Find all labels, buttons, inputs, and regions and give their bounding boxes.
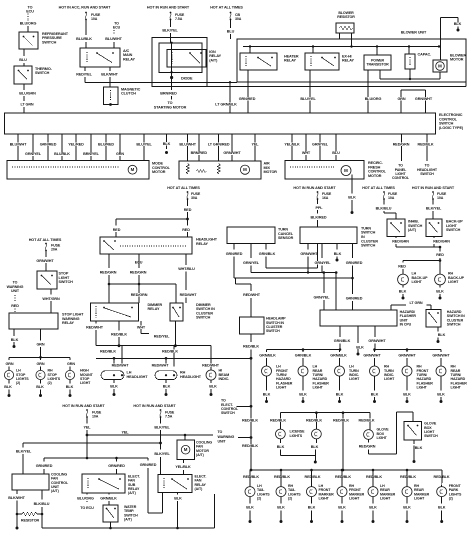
- RH back-up light: [435, 272, 465, 285]
- svg-text:YEL: YEL: [122, 431, 130, 435]
- svg-text:30A: 30A: [235, 17, 242, 21]
- fuse 20A: [45, 243, 61, 252]
- power transistor: [364, 55, 391, 70]
- svg-text:GRN/WHT: GRN/WHT: [398, 353, 416, 357]
- svg-text:RED/BLK: RED/BLK: [418, 143, 434, 147]
- svg-text:LIGHT: LIGHT: [448, 280, 459, 284]
- wire YEL (air mix): [252, 134, 260, 161]
- wire dimmer switch drop: [174, 321, 177, 347]
- wire BLU/RED (mode motor): [98, 134, 114, 161]
- svg-text:GRN: GRN: [36, 342, 44, 346]
- svg-text:LT GRN: LT GRN: [409, 301, 422, 305]
- svg-text:SWITCH: SWITCH: [266, 329, 280, 333]
- svg-text:LIGHT: LIGHT: [349, 377, 360, 381]
- svg-text:ECU: ECU: [113, 25, 121, 29]
- svg-text:RED/BLK: RED/BLK: [100, 350, 116, 354]
- wire GRN/WHT (turn switch): [300, 244, 318, 274]
- wire GRN (mode motor): [116, 134, 124, 161]
- svg-text:BLK: BLK: [338, 506, 346, 510]
- svg-text:LT GRN/BLK: LT GRN/BLK: [215, 102, 237, 106]
- svg-text:BLU/ORG: BLU/ORG: [365, 97, 382, 101]
- svg-text:BLK/BLU: BLK/BLU: [34, 502, 50, 506]
- svg-text:RED: RED: [436, 253, 444, 257]
- svg-text:LIGHT: LIGHT: [380, 497, 391, 501]
- ground LH headlight: [110, 380, 118, 396]
- ground RH headlight: [163, 380, 171, 396]
- svg-text:BLU/RED: BLU/RED: [98, 143, 114, 147]
- fuse 10A (backup): [383, 191, 398, 200]
- svg-text:BLK/YEL: BLK/YEL: [154, 425, 170, 429]
- wire WHT/GRN: [42, 289, 60, 313]
- ground LH back-up: [399, 285, 407, 300]
- wire RH turn rail GRN/WHT: [363, 348, 450, 366]
- wire GRN/YEL (mode motor): [25, 134, 42, 161]
- fuse 7.5A (elect fan): [160, 409, 175, 418]
- svg-text:BLK/RED: BLK/RED: [311, 216, 327, 220]
- wire RED/GRN (glove): [359, 412, 413, 454]
- wire GRN + GRN/WHT bracket: [397, 90, 432, 113]
- svg-text:RESISTOR: RESISTOR: [21, 518, 40, 522]
- ground rh front: [338, 497, 346, 523]
- svg-text:BLK/YEL: BLK/YEL: [154, 452, 170, 456]
- wire capac/motor common: [380, 69, 440, 80]
- svg-text:MOTOR: MOTOR: [450, 58, 464, 62]
- svg-text:GRN/WHT: GRN/WHT: [368, 339, 386, 343]
- wire GRN/WHT (hazard out): [368, 326, 386, 350]
- wire RED to headlight relay: [113, 199, 192, 237]
- hazard switch in cluster switch: [426, 310, 465, 328]
- ground stop light warning relay BLK: [11, 329, 19, 348]
- lh rear turn light: [298, 365, 329, 390]
- RH headlight: [155, 371, 202, 380]
- svg-text:SWITCH: SWITCH: [424, 434, 438, 438]
- svg-text:BLK: BLK: [438, 506, 446, 510]
- svg-text:GRN: GRN: [67, 362, 75, 366]
- svg-text:GRN/YEL: GRN/YEL: [315, 261, 332, 265]
- svg-text:RED/BLK: RED/BLK: [274, 475, 290, 479]
- ground front park: [438, 497, 446, 523]
- svg-text:GRN/YEL: GRN/YEL: [25, 152, 42, 156]
- svg-text:BLK: BLK: [436, 289, 444, 293]
- svg-text:GRN/RED: GRN/RED: [36, 464, 53, 468]
- svg-text:GRN/WHT: GRN/WHT: [363, 353, 381, 357]
- blower motor: [433, 54, 466, 73]
- elect fan sub relay (A/T): [82, 474, 140, 495]
- ground rh turn light: [371, 376, 379, 403]
- svg-text:WHT: WHT: [137, 325, 146, 329]
- ground rh tail: [277, 497, 285, 523]
- svg-text:BLK: BLK: [163, 385, 171, 389]
- svg-text:RELAY: RELAY: [62, 321, 74, 325]
- wire GRN/RED drop: [239, 70, 256, 113]
- wire RED/GRN (inhib): [392, 237, 440, 248]
- svg-text:GRN/RED: GRN/RED: [239, 97, 256, 101]
- wire RED/BLK to headlight switch: [417, 134, 438, 176]
- svg-text:BLK: BLK: [163, 142, 171, 146]
- wire / diode to starting motor: [154, 42, 193, 113]
- svg-text:HOT IN RUN AND START: HOT IN RUN AND START: [293, 186, 336, 190]
- wire GRN/WHT (air mix): [223, 134, 241, 161]
- ground hazard switch BLK: [437, 327, 446, 343]
- fuse 10A (A/C): [85, 12, 101, 22]
- lh front marker lamp: [307, 473, 335, 501]
- svg-text:BLU/YEL: BLU/YEL: [300, 97, 316, 101]
- node HOT IN RUN AND START (ign): [147, 6, 190, 10]
- fuse 7.5A (ign): [170, 12, 185, 22]
- svg-text:BLK: BLK: [454, 22, 462, 26]
- svg-text:ECU: ECU: [26, 10, 34, 14]
- svg-text:MOTOR: MOTOR: [152, 170, 166, 174]
- svg-text:BLK: BLK: [369, 506, 377, 510]
- electronic control switch (logic type): [5, 113, 464, 134]
- svg-text:RED/WHT: RED/WHT: [180, 293, 198, 297]
- node TO WARNING UNIT (stop): [7, 281, 24, 313]
- svg-text:BLK/YEL: BLK/YEL: [162, 29, 178, 33]
- wire GRN/RED rail: [234, 278, 353, 284]
- ground turn switch BLK: [334, 244, 342, 262]
- svg-text:LIGHT: LIGHT: [451, 386, 462, 390]
- svg-text:BLK: BLK: [246, 506, 254, 510]
- svg-text:RED/BLK: RED/BLK: [359, 419, 375, 423]
- svg-text:WHT/GRN: WHT/GRN: [42, 297, 60, 301]
- svg-text:BLK: BLK: [36, 385, 44, 389]
- wire GRN/BLK loop: [259, 244, 318, 268]
- svg-text:INDIC.: INDIC.: [219, 377, 230, 381]
- svg-text:RELAY: RELAY: [196, 242, 208, 246]
- svg-text:M: M: [243, 167, 247, 172]
- svg-text:YEL/RED: YEL/RED: [68, 143, 84, 147]
- headlamp switch in cluster switch: [239, 317, 286, 334]
- wire BLK/WHT to magnetic clutch: [101, 67, 118, 87]
- svg-text:BLK: BLK: [415, 446, 423, 450]
- svg-text:RED/BLK: RED/BLK: [111, 333, 127, 337]
- node HOT AT ALL TIMES (backup): [362, 186, 395, 190]
- svg-text:(A/T): (A/T): [124, 518, 133, 522]
- svg-text:GRN/BLK: GRN/BLK: [334, 339, 351, 343]
- svg-text:LIGHTS: LIGHTS: [290, 434, 303, 438]
- wire BLK (recirc motor ground): [348, 175, 356, 215]
- ground license lights: [277, 439, 319, 464]
- wire BLU/BLK: [76, 20, 92, 49]
- ground RH stop: [36, 380, 44, 397]
- svg-text:BLK: BLK: [11, 338, 19, 342]
- wire BLK/YEL (elect fan feed): [154, 417, 170, 444]
- ground high mount stop: [66, 380, 74, 397]
- wire BLU/YEL drop: [300, 70, 316, 113]
- svg-text:RED/BLK: RED/BLK: [335, 475, 351, 479]
- wire BLK/YEL (ign relay feed): [162, 20, 178, 43]
- wire RED/WHT (high beam): [86, 321, 104, 346]
- wire GRN/WHT: [36, 251, 54, 272]
- wire BLU (blower feed): [227, 20, 235, 40]
- svg-text:GRN/BLK: GRN/BLK: [330, 353, 347, 357]
- cooling fan control unit (A/T): [12, 472, 69, 493]
- svg-text:RED: RED: [398, 264, 406, 268]
- svg-text:RED/BLK: RED/BLK: [306, 419, 322, 423]
- fuse 30A: [187, 191, 201, 200]
- svg-text:HOT IN RUN AND START: HOT IN RUN AND START: [147, 6, 190, 10]
- wire bottom common: [42, 494, 215, 528]
- svg-text:RED/GRN: RED/GRN: [131, 293, 148, 297]
- svg-text:BLK: BLK: [110, 385, 118, 389]
- ign relay (A/T): [167, 49, 222, 67]
- svg-text:M: M: [184, 447, 188, 452]
- wire stop lights rail: [5, 356, 75, 371]
- svg-text:RED/BLK: RED/BLK: [242, 419, 258, 423]
- svg-text:TO: TO: [218, 430, 223, 434]
- license light 2: [312, 429, 322, 439]
- wire BLU/ORG TO ECU: [77, 493, 94, 510]
- back-up light switch: [426, 219, 463, 237]
- svg-text:RED/WHT: RED/WHT: [112, 364, 130, 368]
- node HOT IN RUN AND START (elect fan): [133, 404, 176, 408]
- wire BLU/WHT (air mix): [179, 134, 196, 161]
- svg-text:HEADLIGHT: HEADLIGHT: [180, 375, 202, 379]
- ground LH stop: [4, 380, 12, 397]
- svg-text:BLOWER UNIT: BLOWER UNIT: [401, 31, 427, 35]
- svg-text:M: M: [344, 168, 348, 173]
- svg-text:LIGHT: LIGHT: [80, 381, 91, 385]
- wire RED/GRN (dimmer relay feed): [100, 254, 117, 303]
- svg-text:SWITCH: SWITCH: [221, 411, 235, 415]
- svg-text:DIODE: DIODE: [181, 76, 193, 80]
- svg-text:BLU/ORG: BLU/ORG: [20, 22, 37, 26]
- svg-text:YEL: YEL: [84, 425, 92, 429]
- wire WHT/BLU: [178, 254, 197, 303]
- svg-text:SWITCH: SWITCH: [420, 172, 434, 176]
- wire ign rail: [207, 82, 466, 86]
- svg-text:RED: RED: [113, 228, 121, 232]
- svg-text:10A: 10A: [388, 196, 395, 200]
- wire GRN/RED (hazard feed): [346, 244, 363, 310]
- svg-text:BLK: BLK: [356, 345, 364, 349]
- A/C main relay: [80, 48, 135, 67]
- svg-text:BLU/YEL: BLU/YEL: [136, 143, 152, 147]
- svg-text:RED/GRN: RED/GRN: [393, 143, 410, 147]
- wire YEL/RED (mode motor): [68, 134, 84, 161]
- svg-text:YEL: YEL: [252, 143, 260, 147]
- svg-text:LIGHT: LIGHT: [384, 377, 395, 381]
- svg-text:BLU/ORG: BLU/ORG: [77, 496, 94, 500]
- svg-text:RED/BLK: RED/BLK: [366, 475, 382, 479]
- svg-text:BLK: BLK: [263, 392, 271, 396]
- svg-text:(A/T): (A/T): [195, 487, 204, 491]
- svg-text:BLK/WHT: BLK/WHT: [101, 73, 118, 77]
- svg-text:GRN/RED: GRN/RED: [226, 252, 243, 256]
- svg-text:YEL/BLK: YEL/BLK: [175, 465, 191, 469]
- glove box light switch: [404, 421, 438, 440]
- wire GRN/RED (turn cancel): [226, 244, 243, 278]
- air mix motor: [179, 161, 277, 179]
- svg-text:RED: RED: [11, 304, 19, 308]
- lh tail lights lamp: [245, 473, 270, 501]
- turn switch in cluster switch: [300, 226, 378, 247]
- svg-text:RED/GRN: RED/GRN: [100, 270, 117, 274]
- svg-text:(A/T): (A/T): [196, 453, 205, 457]
- node TO ELECT CONTROL SWITCH: [221, 399, 251, 416]
- wire BLK/YEL (elect fan relay): [154, 443, 170, 475]
- svg-text:RED/GRN: RED/GRN: [359, 445, 376, 449]
- wire BLU/BLK (mode motor): [54, 134, 70, 161]
- svg-text:GRN/WHT: GRN/WHT: [36, 259, 54, 263]
- wire GRN/BLK (water temp): [100, 493, 117, 505]
- svg-text:BRN/YEL: BRN/YEL: [83, 152, 100, 156]
- wire RED/WHT (headlamp switch): [243, 284, 261, 317]
- svg-text:BLK: BLK: [4, 385, 12, 389]
- svg-text:GRN/RED: GRN/RED: [108, 464, 125, 468]
- svg-text:PPL: PPL: [316, 206, 324, 210]
- svg-text:BLK: BLK: [403, 506, 411, 510]
- node HOT IN RUN AND START (backup): [412, 186, 455, 190]
- lh rear marker lamp: [368, 473, 396, 501]
- water temp switch (A/T): [103, 505, 138, 522]
- wire YEL to warning unit: [87, 430, 258, 448]
- node HOT AT ALL TIMES (blower): [210, 6, 243, 10]
- stop light warning relay: [9, 313, 84, 329]
- svg-text:LT GRN: LT GRN: [20, 102, 33, 106]
- high beam indicator: [206, 369, 231, 381]
- wire headlight relay crossbar: [109, 284, 176, 303]
- wire BLK/YEL (backup): [426, 199, 442, 219]
- svg-text:7.5A: 7.5A: [165, 414, 173, 418]
- svg-text:SENSOR: SENSOR: [278, 236, 294, 240]
- wire RED/BLK (park feed): [242, 334, 259, 472]
- wire GRN/YEL (turn switch): [315, 244, 332, 273]
- node HOT IN RUN AND START (cooling fan): [62, 404, 105, 408]
- svg-text:BLK: BLK: [299, 392, 307, 396]
- svg-text:RED/BLK: RED/BLK: [333, 419, 349, 423]
- svg-text:BLU: BLU: [227, 30, 235, 34]
- svg-text:GRN: GRN: [116, 152, 124, 156]
- front park lights lamp: [437, 473, 462, 501]
- svg-text:RED/YEL: RED/YEL: [154, 334, 170, 338]
- stop light switch: [37, 271, 73, 289]
- svg-text:BLK/WHT: BLK/WHT: [8, 496, 25, 500]
- svg-text:UNIT: UNIT: [11, 289, 20, 293]
- wire PPL / BLK/RED: [311, 199, 327, 227]
- dimmer switch in cluster switch: [170, 303, 215, 321]
- svg-text:BLU/BLK: BLU/BLK: [54, 152, 70, 156]
- wire BRN/RED (air mix): [191, 134, 208, 161]
- ground RH back-up: [436, 285, 444, 300]
- wire ECU RED/GRN: [130, 254, 147, 303]
- dimmer relay: [91, 303, 163, 321]
- wire BLU/GRN / LT GRN to control switch: [19, 84, 36, 113]
- wire BLU/WHT: [105, 37, 122, 48]
- svg-text:GRN/YEL: GRN/YEL: [243, 261, 260, 265]
- svg-text:16A: 16A: [322, 196, 329, 200]
- svg-text:RED/BLK: RED/BLK: [162, 350, 178, 354]
- wire BLU/WHT (mode motor): [10, 134, 27, 161]
- svg-text:LIGHT: LIGHT: [276, 386, 287, 390]
- svg-text:BLK: BLK: [311, 445, 319, 449]
- rh front marker lamp: [337, 473, 365, 501]
- wire BLK stub + splice: [163, 134, 171, 154]
- svg-text:BLK: BLK: [308, 506, 316, 510]
- rh turn indic. light: [370, 365, 397, 382]
- ground lh turn light: [336, 376, 344, 403]
- ign relay (A/T) enclosure: [152, 38, 207, 87]
- svg-text:10A: 10A: [91, 17, 98, 21]
- ground rh front light: [403, 376, 411, 403]
- wire BLK/BLU: [34, 490, 50, 528]
- svg-text:BLK: BLK: [371, 392, 379, 396]
- LH back-up light: [398, 272, 428, 285]
- svg-text:BLK: BLK: [174, 496, 182, 500]
- svg-text:GRN/WHT: GRN/WHT: [223, 151, 241, 155]
- svg-text:HOT AT ALL TIMES: HOT AT ALL TIMES: [167, 186, 200, 190]
- ground glove box switch: [413, 440, 423, 463]
- blower unit box: [237, 31, 466, 82]
- wire blower internal bus: [243, 45, 440, 55]
- svg-text:TO: TO: [28, 5, 33, 9]
- svg-text:HOT AT ALL TIMES: HOT AT ALL TIMES: [29, 238, 62, 242]
- svg-text:RED/WHT: RED/WHT: [202, 364, 220, 368]
- wire high beam rail: [96, 346, 211, 370]
- svg-text:LIGHT: LIGHT: [349, 497, 360, 501]
- svg-text:BLU/WHT: BLU/WHT: [105, 37, 122, 41]
- ground rh rear: [403, 497, 411, 523]
- wire WHT (recirc): [302, 134, 311, 161]
- svg-text:7.5A: 7.5A: [175, 17, 183, 21]
- wire GRN/YEL rail to hazard unit: [251, 271, 338, 310]
- svg-text:BLK: BLK: [277, 506, 285, 510]
- svg-text:LIGHT: LIGHT: [417, 386, 428, 390]
- wire YEL (cooling fan feed): [84, 417, 92, 459]
- ground lh front: [308, 497, 316, 523]
- svg-text:WHT: WHT: [302, 151, 311, 155]
- svg-text:HOT IN RUN AND START: HOT IN RUN AND START: [133, 404, 176, 408]
- svg-text:TRANSISTOR: TRANSISTOR: [366, 63, 389, 67]
- wire BLK (elect fan relay): [174, 492, 182, 529]
- svg-text:TO ECU: TO ECU: [80, 506, 94, 510]
- svg-text:WARNING: WARNING: [218, 435, 235, 439]
- svg-text:GRN/WHT: GRN/WHT: [300, 252, 318, 256]
- wire GRN/YEL (recirc): [312, 134, 329, 161]
- svg-text:RED/GRN: RED/GRN: [392, 240, 409, 244]
- svg-text:BLK: BLK: [277, 445, 285, 449]
- wire WHT / RED/YEL: [137, 321, 176, 338]
- svg-text:BLU/WHT: BLU/WHT: [10, 143, 27, 147]
- svg-text:GRN/BLK: GRN/BLK: [259, 353, 276, 357]
- rh tail lights lamp: [276, 473, 301, 501]
- headlight relay: [100, 237, 218, 254]
- wire GRN/RED rail: [36, 457, 163, 513]
- svg-text:WHT/BLU: WHT/BLU: [178, 267, 195, 271]
- svg-text:20A: 20A: [51, 248, 58, 252]
- ground hazard unit BLK: [356, 326, 364, 356]
- svg-text:GRN/YEL: GRN/YEL: [312, 143, 329, 147]
- svg-text:RED/YEL: RED/YEL: [76, 73, 92, 77]
- svg-text:BLK/YEL: BLK/YEL: [16, 450, 32, 454]
- wire RED to LH back-up: [398, 261, 440, 275]
- svg-text:GRN/WHT: GRN/WHT: [432, 353, 450, 357]
- svg-text:GRN/YEL: GRN/YEL: [314, 295, 331, 299]
- wire YEL/BLK (recirc): [284, 134, 300, 161]
- ground lh rear light: [299, 376, 307, 403]
- svg-text:BLK: BLK: [399, 289, 407, 293]
- node TO ECU (refrigerant pressure switch feed): [26, 5, 34, 21]
- svg-text:LIGHT: LIGHT: [412, 280, 423, 284]
- wire LT GRN bracket: [391, 301, 431, 310]
- wire GRN/BLK (hazard out): [334, 326, 351, 350]
- svg-text:RED/GRN: RED/GRN: [130, 270, 147, 274]
- svg-text:BLK: BLK: [66, 385, 74, 389]
- svg-text:HOT AT ALL TIMES: HOT AT ALL TIMES: [210, 6, 243, 10]
- svg-text:RED/BLK: RED/BLK: [243, 475, 259, 479]
- wire BLU/ORG drop: [365, 70, 382, 113]
- svg-text:GRN/RED: GRN/RED: [346, 261, 363, 265]
